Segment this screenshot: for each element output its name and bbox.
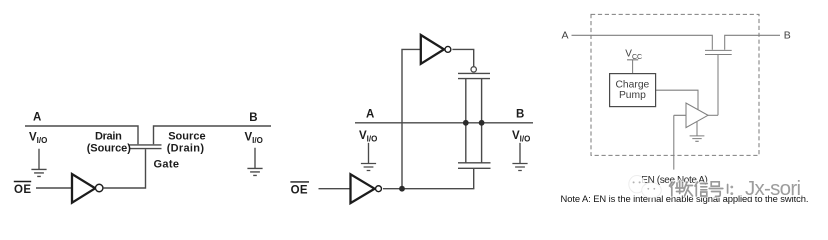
svg-text:OE: OE bbox=[291, 184, 308, 196]
svg-text:VI/O: VI/O bbox=[245, 131, 263, 145]
svg-text:B: B bbox=[784, 30, 791, 42]
svg-text:A: A bbox=[562, 30, 569, 42]
svg-text:Charge: Charge bbox=[616, 79, 650, 90]
svg-text:(Source): (Source) bbox=[87, 143, 132, 155]
svg-text:(Drain): (Drain) bbox=[167, 143, 205, 155]
svg-text:A: A bbox=[33, 111, 41, 123]
svg-text:VI/O: VI/O bbox=[359, 130, 377, 144]
svg-text:OE: OE bbox=[14, 184, 31, 196]
svg-text:B: B bbox=[516, 109, 524, 121]
svg-text:Source: Source bbox=[168, 130, 205, 142]
svg-text:Jx-sori: Jx-sori bbox=[745, 177, 801, 200]
svg-text:VI/O: VI/O bbox=[512, 130, 530, 144]
svg-text:VI/O: VI/O bbox=[29, 131, 47, 145]
svg-text:Drain: Drain bbox=[95, 130, 122, 142]
svg-text:B: B bbox=[249, 112, 257, 124]
svg-text:Gate: Gate bbox=[154, 158, 180, 170]
svg-text:VCC: VCC bbox=[625, 49, 642, 61]
svg-text:A: A bbox=[366, 108, 374, 120]
svg-text:Pump: Pump bbox=[619, 90, 646, 101]
